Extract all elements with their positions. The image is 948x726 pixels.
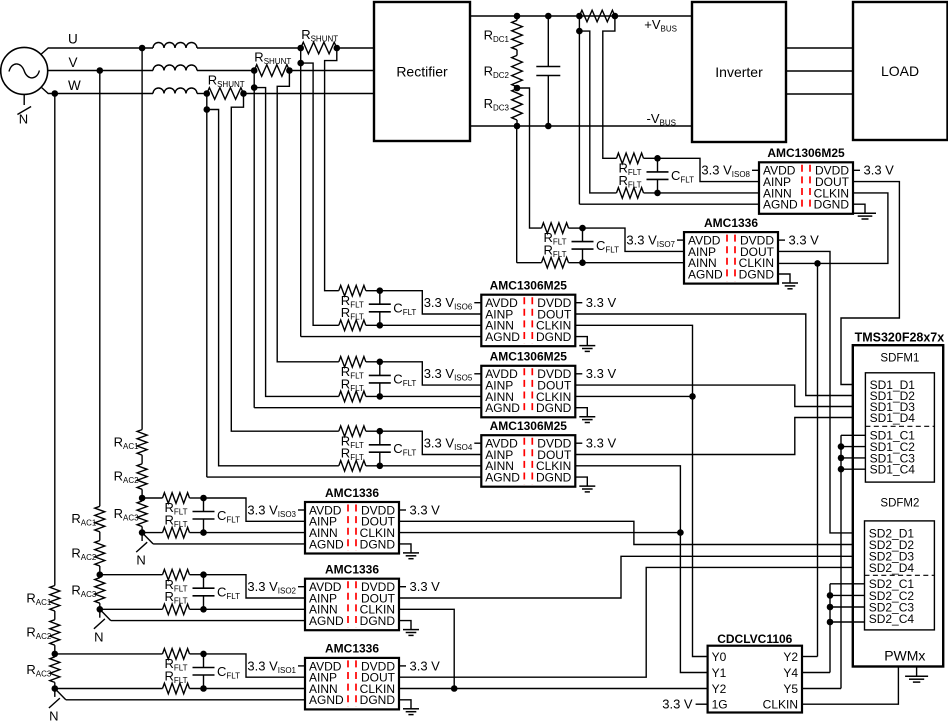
svg-text:DGND: DGND [360,537,396,551]
svg-text:3.3 V: 3.3 V [410,579,441,594]
svg-text:3.3 V: 3.3 V [410,502,441,517]
svg-text:Y5: Y5 [783,682,798,696]
svg-text:AGND: AGND [309,614,344,628]
svg-text:W: W [68,78,81,93]
svg-text:N: N [49,709,58,724]
svg-text:3.3 V: 3.3 V [864,163,895,178]
svg-text:SDFM1: SDFM1 [880,353,919,365]
svg-text:AGND: AGND [485,401,520,415]
svg-text:Y4: Y4 [783,666,798,680]
svg-text:N: N [94,629,103,644]
svg-text:SD2_C4: SD2_C4 [869,612,915,626]
svg-text:3.3 V: 3.3 V [662,697,693,712]
svg-text:AMC1336: AMC1336 [704,216,758,230]
svg-text:DGND: DGND [739,267,775,281]
svg-text:Y2: Y2 [783,650,798,664]
svg-text:AMC1306M25: AMC1306M25 [490,279,568,293]
svg-text:AGND: AGND [485,471,520,485]
svg-text:DGND: DGND [814,198,850,212]
svg-text:DGND: DGND [360,693,396,707]
svg-text:1G: 1G [712,698,728,712]
svg-text:3.3 V: 3.3 V [586,366,617,381]
svg-text:N: N [136,553,145,568]
svg-text:Inverter: Inverter [715,64,763,80]
svg-text:DGND: DGND [536,330,572,344]
svg-text:AGND: AGND [309,537,344,551]
svg-text:DGND: DGND [536,471,572,485]
svg-text:SD2_D4: SD2_D4 [869,561,915,575]
svg-text:AGND: AGND [688,267,723,281]
svg-text:3.3 V: 3.3 V [586,436,617,451]
svg-text:AMC1336: AMC1336 [325,563,379,577]
svg-text:CLKIN: CLKIN [763,698,798,712]
svg-text:3.3 V: 3.3 V [410,658,441,673]
svg-text:3.3 V: 3.3 V [586,295,617,310]
svg-text:AMC1336: AMC1336 [325,642,379,656]
svg-text:SDFM2: SDFM2 [880,498,919,510]
svg-text:DGND: DGND [360,614,396,628]
svg-text:V: V [69,55,78,70]
svg-text:AMC1336: AMC1336 [325,486,379,500]
svg-text:N: N [19,112,28,127]
svg-text:DGND: DGND [536,401,572,415]
svg-text:Y1: Y1 [712,666,727,680]
svg-text:Y0: Y0 [712,650,727,664]
svg-text:AGND: AGND [763,198,798,212]
svg-text:PWMx: PWMx [884,648,925,664]
svg-text:U: U [68,32,78,47]
svg-text:AGND: AGND [309,693,344,707]
svg-text:SD1_C4: SD1_C4 [870,463,916,477]
svg-text:Y2: Y2 [712,682,727,696]
svg-text:AGND: AGND [485,330,520,344]
svg-text:AMC1306M25: AMC1306M25 [490,350,568,364]
svg-text:AMC1306M25: AMC1306M25 [767,146,845,160]
svg-text:CDCLVC1106: CDCLVC1106 [717,632,792,646]
svg-text:SD1_D4: SD1_D4 [870,411,916,425]
svg-text:Rectifier: Rectifier [396,64,448,80]
svg-text:TMS320F28x7x: TMS320F28x7x [855,331,945,345]
svg-text:3.3 V: 3.3 V [789,233,820,248]
svg-text:AMC1306M25: AMC1306M25 [490,419,568,433]
svg-text:LOAD: LOAD [881,63,919,79]
